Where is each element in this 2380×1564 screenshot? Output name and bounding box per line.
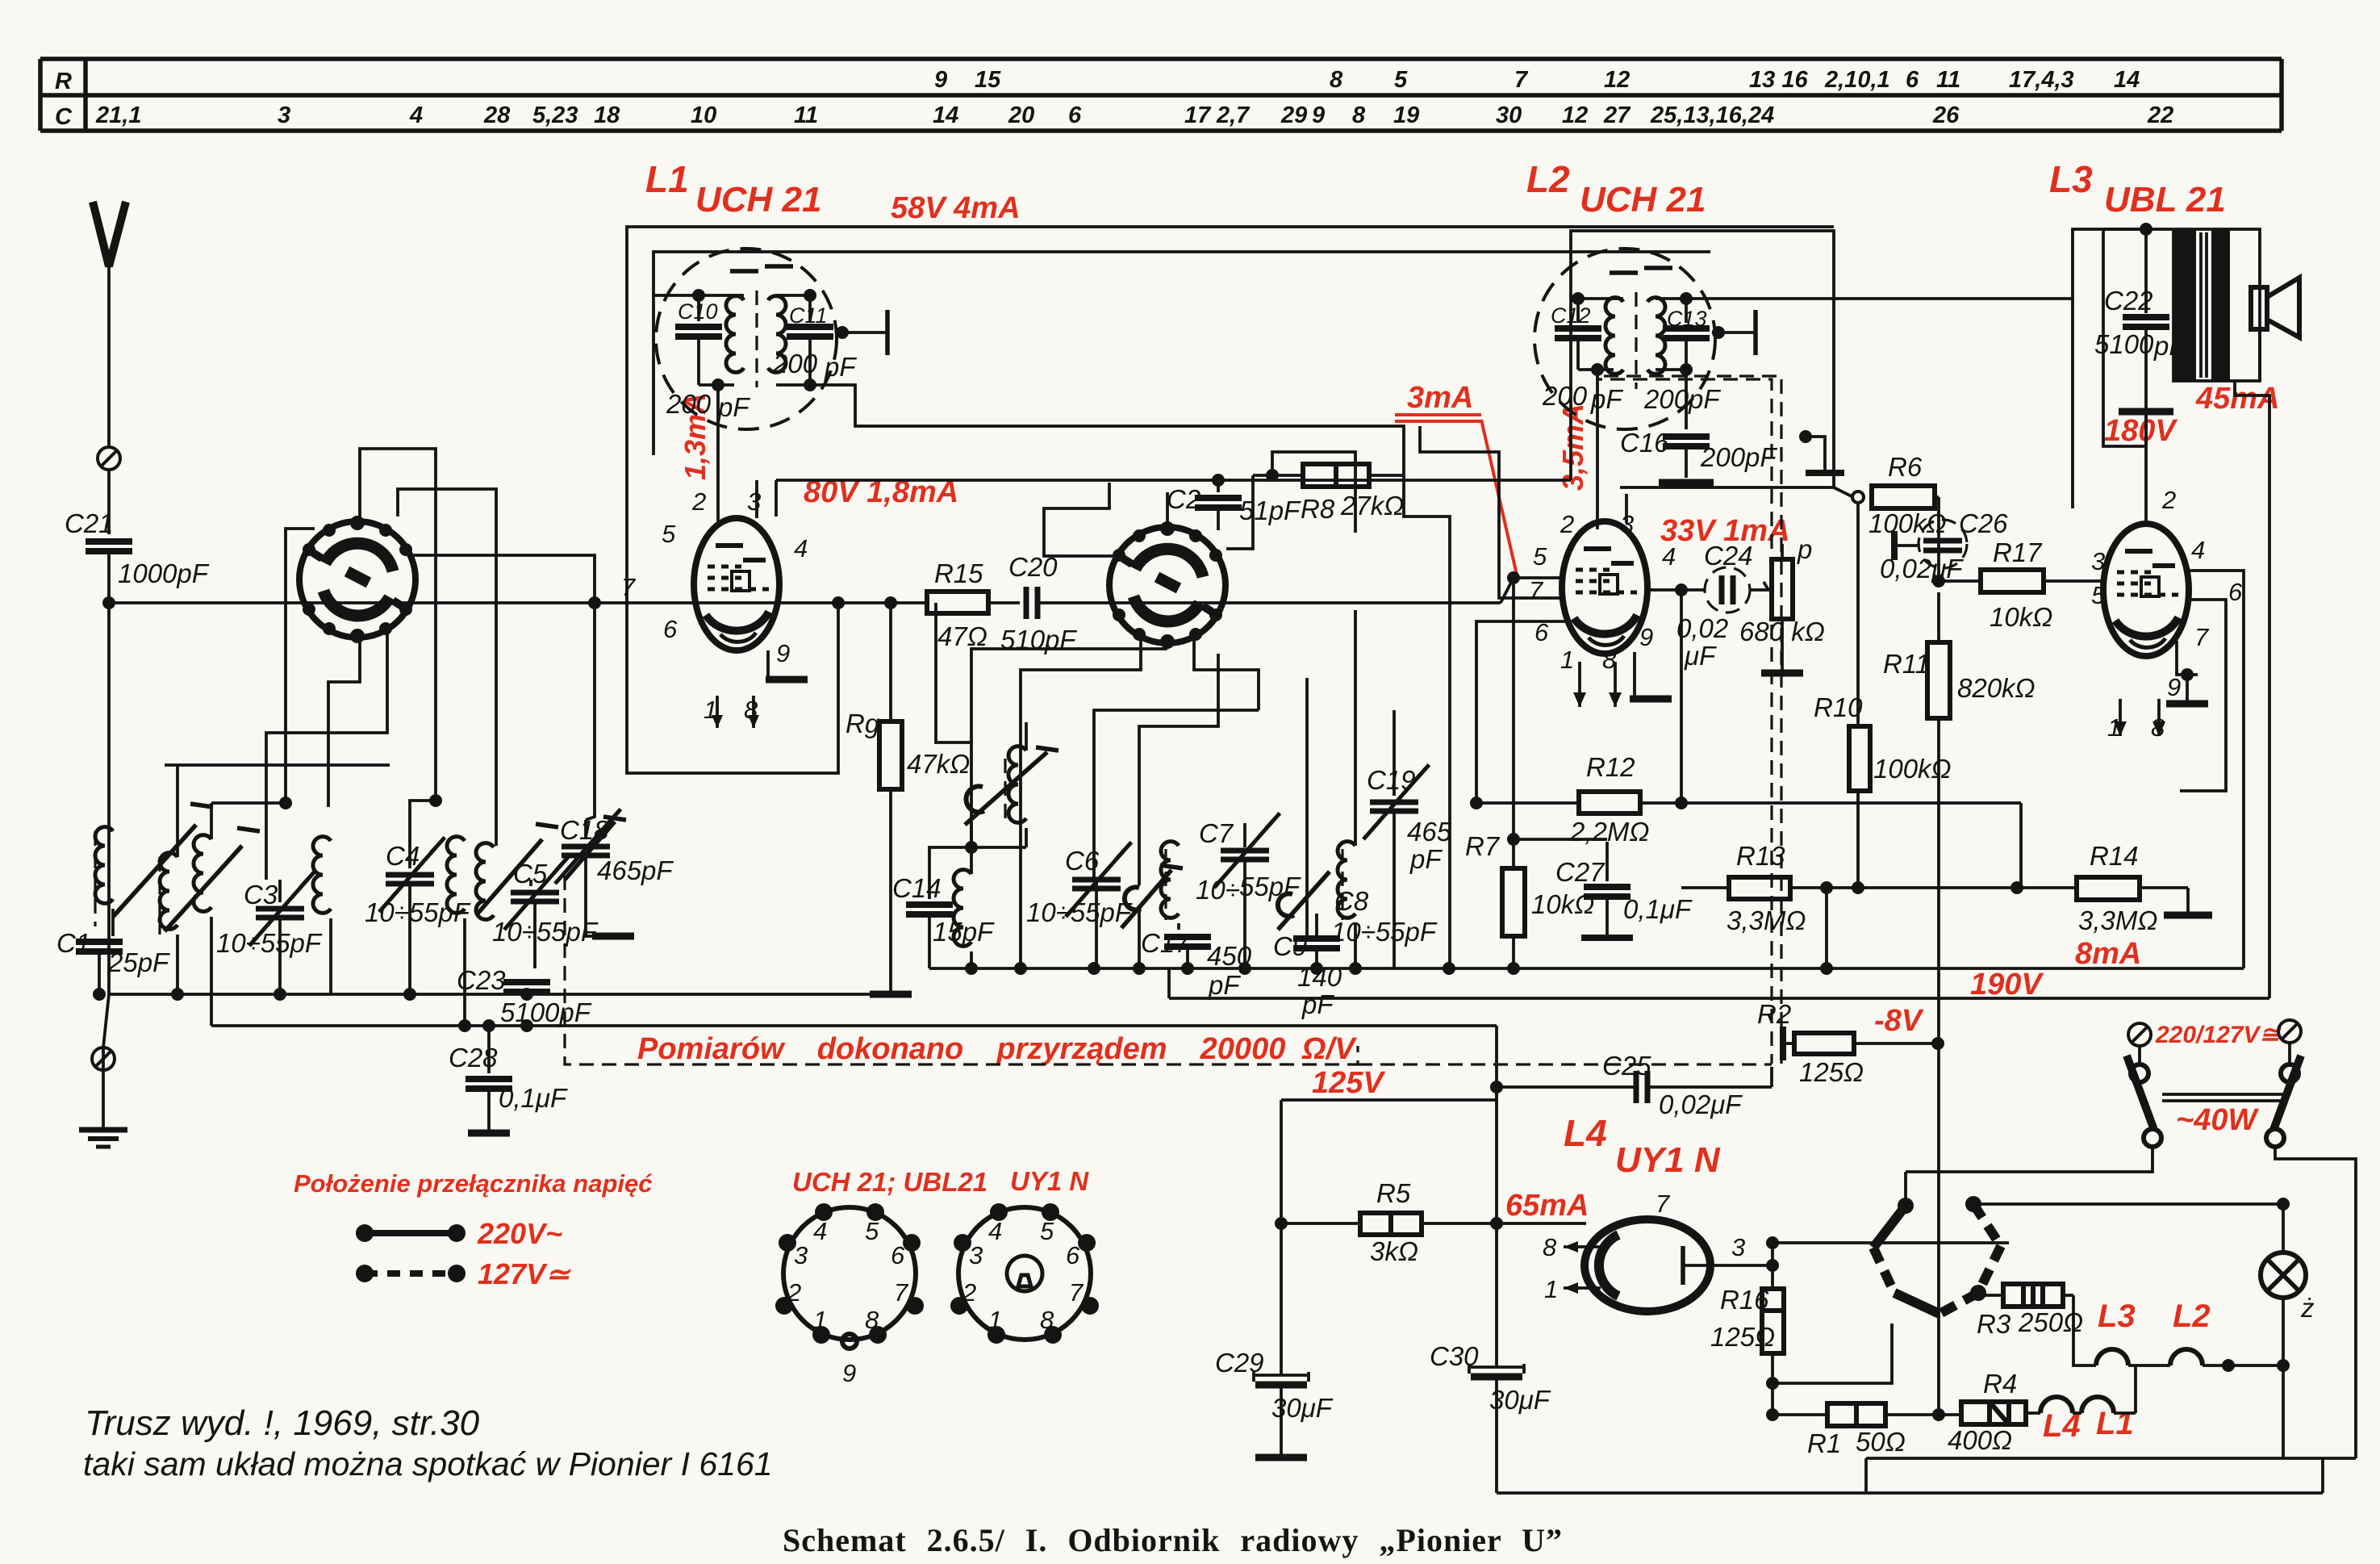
svg-text:C4: C4 bbox=[386, 841, 420, 871]
resistor R5 bbox=[1275, 1178, 1586, 1266]
capacitor C12 bbox=[1576, 299, 1580, 323]
coil IF mid bbox=[954, 823, 971, 968]
svg-text:10÷55pF: 10÷55pF bbox=[492, 917, 599, 947]
svg-text:18: 18 bbox=[594, 102, 620, 128]
capacitor C30 bbox=[1430, 1087, 1551, 1493]
capacitor C16 bbox=[1620, 370, 1777, 483]
grid stopper symbol right of dashes bbox=[1799, 430, 1844, 473]
bus nodes bbox=[171, 988, 184, 1001]
svg-text:C16: C16 bbox=[1620, 428, 1669, 458]
L3 pin wires bbox=[2114, 413, 2244, 968]
svg-text:μF: μF bbox=[1684, 641, 1717, 671]
svg-text:R15: R15 bbox=[934, 558, 983, 588]
table C row numbers bbox=[95, 102, 2173, 128]
tube L1 bbox=[694, 518, 779, 650]
svg-text:0,1μF: 0,1μF bbox=[1623, 894, 1693, 924]
svg-text:ż: ż bbox=[2300, 1293, 2315, 1323]
svg-text:UY1 N: UY1 N bbox=[1615, 1140, 1721, 1180]
svg-text:R: R bbox=[55, 69, 72, 94]
svg-text:220V~: 220V~ bbox=[477, 1217, 562, 1250]
T2 primary coil bbox=[1605, 298, 1623, 374]
svg-text:pF: pF bbox=[717, 392, 750, 422]
coil osc 1 bbox=[194, 835, 211, 1026]
svg-text:C30: C30 bbox=[1430, 1341, 1479, 1371]
wire S2 upper-left loop bbox=[1044, 483, 1121, 556]
capacitor C28 bbox=[449, 1019, 568, 1133]
svg-text:55pF: 55pF bbox=[1239, 872, 1301, 901]
L3 pin labels bbox=[2091, 486, 2243, 742]
svg-text:4: 4 bbox=[409, 102, 423, 128]
wire mixer mesh b bbox=[971, 649, 1167, 847]
svg-text:125Ω: 125Ω bbox=[1799, 1057, 1864, 1087]
svg-text:R2: R2 bbox=[1757, 999, 1791, 1029]
band switch S1 bbox=[299, 516, 415, 643]
svg-text:-8V: -8V bbox=[1874, 1004, 1924, 1038]
resistor R3 bbox=[1977, 1284, 2083, 1339]
svg-text:C25: C25 bbox=[1602, 1051, 1651, 1081]
wire S1 right to node bbox=[407, 555, 595, 603]
heater coils L3 L2 bbox=[2073, 1295, 2283, 1372]
L4 pin labels bbox=[1543, 1190, 1745, 1303]
svg-text:1000pF: 1000pF bbox=[118, 558, 210, 588]
svg-text:12: 12 bbox=[1562, 102, 1588, 128]
svg-text:3,3MΩ: 3,3MΩ bbox=[1727, 905, 1806, 935]
svg-text:4: 4 bbox=[988, 1217, 1002, 1245]
svg-text:R6: R6 bbox=[1888, 452, 1923, 482]
capacitor C27 bbox=[1514, 839, 1693, 938]
L2 pin wires bbox=[1476, 494, 1672, 803]
svg-text:3: 3 bbox=[969, 1241, 983, 1269]
svg-text:2,2MΩ: 2,2MΩ bbox=[1569, 817, 1649, 847]
svg-text:pF: pF bbox=[2153, 331, 2186, 361]
wire AVC bus right bbox=[1834, 487, 1853, 497]
wire C21 to node bbox=[107, 551, 111, 994]
bus lower 1 bbox=[109, 993, 891, 996]
svg-text:7: 7 bbox=[1069, 1278, 1084, 1307]
L1 inner top line bbox=[653, 252, 1710, 295]
wire S1 bottom left bbox=[328, 636, 360, 807]
svg-text:8: 8 bbox=[1543, 1233, 1557, 1261]
svg-text:200pF: 200pF bbox=[1643, 384, 1721, 414]
svg-text:C19: C19 bbox=[1367, 765, 1416, 795]
svg-text:27kΩ: 27kΩ bbox=[1340, 491, 1404, 521]
tube L3 bbox=[2103, 524, 2189, 656]
wire T2 grid cap out bbox=[1712, 310, 1756, 355]
svg-text:17,4,3: 17,4,3 bbox=[2009, 67, 2074, 93]
IF transformer T1 dashed circle bbox=[656, 249, 837, 429]
svg-text:65mA: 65mA bbox=[1505, 1189, 1589, 1223]
output transformer bbox=[2103, 223, 2260, 446]
wire T1 grid cap out bbox=[836, 310, 887, 355]
svg-text:7: 7 bbox=[1529, 576, 1544, 604]
L2 pin labels bbox=[1529, 510, 1676, 674]
svg-text:5,23: 5,23 bbox=[532, 102, 578, 128]
legend 220V solid link bbox=[356, 1224, 466, 1242]
svg-text:pF: pF bbox=[1301, 989, 1334, 1019]
svg-text:58V 4mA: 58V 4mA bbox=[891, 191, 1021, 225]
svg-text:21,1: 21,1 bbox=[95, 102, 141, 128]
inner box 33V bbox=[1620, 486, 1834, 489]
svg-text:10÷55pF: 10÷55pF bbox=[1026, 897, 1133, 927]
svg-text:45mA: 45mA bbox=[2195, 382, 2280, 416]
svg-text:UCH 21: UCH 21 bbox=[1580, 180, 1706, 220]
svg-text:L3: L3 bbox=[2098, 1298, 2136, 1334]
wire antenna to C21 bbox=[107, 471, 111, 534]
svg-text:C13: C13 bbox=[1667, 307, 1707, 331]
wires T2 bbox=[1578, 297, 1623, 300]
svg-text:C10: C10 bbox=[678, 299, 718, 324]
trimmer C4 bbox=[365, 835, 471, 994]
socket UCH21/UBL21 bbox=[775, 1203, 924, 1387]
trimmer C6 bbox=[1026, 843, 1133, 968]
wire T2 out right bbox=[1686, 299, 2073, 508]
svg-text:7: 7 bbox=[1656, 1190, 1671, 1218]
svg-text:3: 3 bbox=[747, 487, 761, 516]
svg-text:C20: C20 bbox=[1008, 552, 1058, 582]
svg-text:2: 2 bbox=[787, 1278, 801, 1307]
wire AVC from pin4 down bbox=[1675, 590, 1688, 809]
wire bank link c bbox=[211, 803, 286, 839]
bottom rails bbox=[1497, 1365, 2356, 1493]
svg-text:10kΩ: 10kΩ bbox=[1990, 602, 2052, 632]
svg-text:1: 1 bbox=[1544, 1275, 1558, 1303]
resistor R9 bbox=[846, 603, 970, 994]
svg-text:Położenie przełącznika napięć: Położenie przełącznika napięć bbox=[294, 1169, 653, 1198]
wires T1 bbox=[699, 294, 744, 297]
svg-text:3: 3 bbox=[794, 1241, 808, 1269]
capacitor C9 bbox=[1273, 872, 1342, 1019]
svg-text:10÷55pF: 10÷55pF bbox=[216, 928, 323, 958]
capacitor C13 bbox=[1685, 299, 1688, 323]
svg-text:0,02: 0,02 bbox=[1676, 613, 1728, 643]
coil osc 2 bbox=[313, 837, 331, 994]
svg-text:6: 6 bbox=[891, 1241, 905, 1269]
svg-text:R4: R4 bbox=[1983, 1369, 2017, 1399]
svg-text:C3: C3 bbox=[244, 880, 278, 910]
svg-text:250Ω: 250Ω bbox=[2018, 1307, 2083, 1337]
svg-text:190V: 190V bbox=[1970, 968, 2044, 1002]
wire plate L1 to R15 bbox=[779, 601, 900, 604]
svg-text:C17: C17 bbox=[1141, 928, 1191, 958]
svg-text:10÷55pF: 10÷55pF bbox=[1331, 917, 1438, 947]
svg-text:19: 19 bbox=[1393, 102, 1419, 128]
L1 outer box bbox=[627, 227, 1834, 603]
trimmer C7 bbox=[1199, 813, 1280, 968]
capacitor C24 (dashed circle) bbox=[1676, 541, 1753, 671]
svg-text:C1: C1 bbox=[56, 928, 90, 958]
svg-text:400Ω: 400Ω bbox=[1948, 1425, 2012, 1455]
bus middle bank bbox=[929, 967, 2244, 970]
svg-text:R14: R14 bbox=[2090, 841, 2139, 871]
svg-text:5: 5 bbox=[865, 1217, 879, 1245]
svg-text:9: 9 bbox=[1639, 623, 1653, 651]
svg-text:5: 5 bbox=[1394, 67, 1408, 93]
capacitor C14 bbox=[892, 841, 995, 968]
svg-text:C: C bbox=[55, 104, 73, 130]
svg-text:C11: C11 bbox=[789, 303, 828, 328]
speaker bbox=[2251, 278, 2299, 337]
svg-text:C14: C14 bbox=[892, 873, 942, 903]
svg-text:5: 5 bbox=[2091, 581, 2106, 609]
svg-text:L3: L3 bbox=[2049, 158, 2093, 200]
wire 125V feed bbox=[1281, 1087, 1497, 1100]
node S1 out bbox=[588, 596, 601, 609]
svg-text:25pF: 25pF bbox=[107, 947, 170, 977]
svg-text:5: 5 bbox=[1040, 1217, 1054, 1245]
svg-text:9: 9 bbox=[1312, 102, 1325, 128]
red lead line to tube L2 bbox=[1481, 420, 1517, 575]
svg-text:4: 4 bbox=[1662, 542, 1676, 571]
svg-text:R16: R16 bbox=[1720, 1285, 1769, 1315]
potentiometer P 680k bbox=[1739, 534, 1825, 673]
wire S2 top bbox=[1166, 492, 1169, 530]
wire antenna node to mixer bbox=[109, 601, 779, 604]
svg-text:6: 6 bbox=[663, 615, 678, 643]
svg-text:2,10,1: 2,10,1 bbox=[1824, 67, 1890, 93]
svg-text:7: 7 bbox=[621, 573, 637, 601]
svg-text:0,1μF: 0,1μF bbox=[499, 1083, 568, 1113]
svg-text:15: 15 bbox=[975, 67, 1001, 93]
svg-text:2: 2 bbox=[1560, 510, 1574, 538]
resistor R8 bbox=[1226, 464, 1404, 549]
svg-text:200: 200 bbox=[1542, 381, 1588, 411]
svg-text:R12: R12 bbox=[1586, 752, 1635, 782]
svg-text:9: 9 bbox=[2167, 673, 2181, 701]
power rotary switch bbox=[1873, 1172, 2001, 1314]
capacitor C11 bbox=[808, 295, 812, 321]
svg-text:510pF: 510pF bbox=[1000, 625, 1077, 654]
svg-text:28: 28 bbox=[483, 102, 511, 128]
svg-text:30: 30 bbox=[1496, 102, 1522, 128]
svg-text:3: 3 bbox=[2091, 547, 2105, 575]
wire mixer mesh g bbox=[1354, 610, 1357, 846]
wire L4 cathode right bbox=[1710, 1236, 2009, 1289]
svg-text:8: 8 bbox=[865, 1306, 879, 1334]
wire pin2 T2 to tube bbox=[1596, 370, 1599, 529]
band switch S2 bbox=[1109, 521, 1225, 649]
T2 secondary coil bbox=[1647, 298, 1665, 374]
wire bank link b bbox=[176, 765, 179, 857]
trimmer C3 bbox=[216, 872, 323, 994]
T1 primary coil bbox=[726, 296, 744, 373]
svg-text:C2: C2 bbox=[1167, 484, 1200, 514]
heater coils L4 L1 bbox=[2026, 1365, 2136, 1413]
resistor R4 bbox=[1939, 1369, 2026, 1455]
svg-text:1: 1 bbox=[1560, 646, 1574, 674]
svg-text:L2: L2 bbox=[1526, 158, 1570, 200]
trimmer C5 bbox=[476, 824, 599, 968]
svg-text:pF: pF bbox=[1590, 384, 1623, 414]
capacitor C25 bbox=[1490, 1051, 1772, 1119]
svg-text:6: 6 bbox=[1066, 1241, 1080, 1269]
svg-text:9: 9 bbox=[776, 639, 790, 667]
socket UY1N bbox=[950, 1203, 1099, 1344]
trimmer small mid bbox=[1121, 865, 1183, 968]
antenna terminal bbox=[98, 447, 120, 470]
svg-text:10÷: 10÷ bbox=[1196, 875, 1240, 905]
svg-text:200: 200 bbox=[772, 349, 818, 378]
trimmer C19 bbox=[1363, 710, 1452, 968]
T2 top bars bbox=[1610, 270, 1638, 275]
svg-text:8: 8 bbox=[1040, 1306, 1054, 1334]
svg-text:4: 4 bbox=[813, 1217, 827, 1245]
svg-text:8: 8 bbox=[1352, 102, 1366, 128]
capacitor C29 bbox=[1215, 1223, 1334, 1457]
wire node to C18 bbox=[586, 603, 595, 820]
resistor R13 bbox=[1681, 841, 1834, 935]
svg-text:100kΩ: 100kΩ bbox=[1873, 754, 1952, 784]
svg-text:27: 27 bbox=[1603, 102, 1631, 128]
IF transformer T2 dashed circle bbox=[1534, 249, 1715, 429]
svg-text:taki sam układ można spotkać w: taki sam układ można spotkać w Pionier I… bbox=[83, 1445, 773, 1482]
T1 top bars bbox=[730, 269, 758, 274]
resistor R14 bbox=[1834, 841, 2212, 935]
coil ant 1 bbox=[95, 804, 213, 926]
svg-text:Schemat 2.6.5/ I. Odbiornik ra: Schemat 2.6.5/ I. Odbiornik radiowy „Pio… bbox=[783, 1522, 1563, 1558]
svg-text:R11: R11 bbox=[1883, 649, 1930, 679]
voltage selector bbox=[1906, 1020, 2356, 1458]
svg-text:C23: C23 bbox=[457, 965, 506, 995]
svg-text:~40W: ~40W bbox=[2176, 1103, 2259, 1137]
svg-text:30μF: 30μF bbox=[1489, 1385, 1551, 1415]
svg-text:C26: C26 bbox=[1959, 508, 2008, 538]
svg-text:220/127V≅: 220/127V≅ bbox=[2155, 1022, 2282, 1048]
svg-text:3kΩ: 3kΩ bbox=[1370, 1236, 1418, 1266]
L1 pin labels bbox=[621, 487, 808, 724]
svg-text:20: 20 bbox=[1008, 102, 1034, 128]
table R row numbers bbox=[934, 67, 2140, 93]
svg-text:R7: R7 bbox=[1465, 831, 1501, 861]
resistor R6 bbox=[1852, 452, 1947, 538]
dashed 127V feed pair bbox=[1597, 370, 1781, 1064]
dashed box bbox=[565, 876, 1772, 1064]
capacitor C23 bbox=[457, 965, 592, 1027]
capacitor C21 bbox=[65, 508, 210, 588]
svg-text:0,02μF: 0,02μF bbox=[1659, 1089, 1743, 1119]
svg-text:14: 14 bbox=[933, 102, 958, 128]
L4 pin arrows bbox=[1564, 1219, 1647, 1294]
svg-text:2,7: 2,7 bbox=[1216, 102, 1251, 128]
svg-text:C24: C24 bbox=[1704, 541, 1753, 571]
svg-text:1: 1 bbox=[988, 1306, 1002, 1334]
svg-text:C28: C28 bbox=[449, 1043, 498, 1073]
svg-text:R17: R17 bbox=[1993, 537, 2043, 567]
svg-text:100kΩ: 100kΩ bbox=[1869, 508, 1947, 538]
node antenna coupling bbox=[102, 596, 115, 609]
svg-text:5100pF: 5100pF bbox=[500, 997, 592, 1027]
capacitor C22 bbox=[2094, 229, 2186, 446]
svg-text:UY1 N: UY1 N bbox=[1010, 1166, 1089, 1196]
svg-text:R3: R3 bbox=[1977, 1309, 2011, 1339]
capacitor C20 bbox=[1000, 552, 1514, 654]
svg-text:Pomiarów dokonano przyrządem: Pomiarów dokonano przyrządem 20000 Ω/V bbox=[637, 1032, 1357, 1066]
L1 pin wires bbox=[712, 480, 808, 728]
svg-text:17: 17 bbox=[1184, 102, 1212, 128]
svg-text:15pF: 15pF bbox=[933, 917, 995, 947]
svg-text:C8: C8 bbox=[1334, 886, 1369, 916]
wire 190V rail bbox=[1169, 968, 2269, 998]
main earth ground bbox=[79, 1130, 127, 1147]
resistor R12 bbox=[1470, 752, 2021, 888]
svg-text:12: 12 bbox=[1604, 67, 1630, 93]
legend 127V dashed link bbox=[356, 1265, 466, 1282]
svg-text:L2: L2 bbox=[2173, 1298, 2211, 1334]
wire mixer mesh a bbox=[936, 603, 971, 742]
svg-text:pF: pF bbox=[1208, 970, 1241, 1000]
wire plate supply top bbox=[2073, 229, 2146, 299]
svg-text:UCH 21; UBL21: UCH 21; UBL21 bbox=[792, 1167, 987, 1197]
capacitor C10 bbox=[697, 295, 700, 321]
svg-text:6: 6 bbox=[2228, 578, 2243, 606]
svg-text:200: 200 bbox=[666, 389, 712, 419]
trimmer C18 bbox=[555, 809, 674, 936]
tube L4 rectifier UY1N bbox=[1585, 1219, 1710, 1311]
svg-text:127V≃: 127V≃ bbox=[478, 1257, 571, 1290]
coil osc 3 bbox=[447, 837, 465, 1026]
wire mixer mesh d bbox=[1094, 710, 1259, 878]
svg-text:2: 2 bbox=[962, 1278, 976, 1307]
wire pin4 to detector bbox=[1647, 583, 1704, 596]
wire transformer secondary down bbox=[2235, 381, 2269, 998]
svg-text:R8: R8 bbox=[1301, 494, 1335, 524]
coil C8 branch bbox=[1331, 842, 1438, 968]
wire to ground bbox=[102, 1048, 105, 1128]
svg-text:R5: R5 bbox=[1376, 1178, 1411, 1208]
wire S2 lower stubs bbox=[1166, 642, 1169, 649]
coil C17 branch bbox=[1141, 842, 1301, 1000]
wire S1 top loop outer bbox=[398, 489, 496, 846]
resistor R11 bbox=[1883, 592, 2036, 1421]
table frame bbox=[40, 59, 2282, 131]
svg-text:5: 5 bbox=[662, 520, 676, 548]
capacitor C26 (dashed circle) bbox=[1880, 508, 2008, 583]
svg-text:200pF: 200pF bbox=[1700, 442, 1777, 472]
svg-text:3mA: 3mA bbox=[1407, 381, 1473, 415]
svg-text:3,3MΩ: 3,3MΩ bbox=[2078, 905, 2157, 935]
svg-text:125Ω: 125Ω bbox=[1710, 1322, 1775, 1352]
svg-text:3,5mA: 3,5mA bbox=[1556, 404, 1589, 491]
svg-text:47Ω: 47Ω bbox=[937, 621, 987, 651]
wire bank link a bbox=[165, 763, 390, 767]
svg-text:C6: C6 bbox=[1065, 846, 1100, 876]
svg-text:9: 9 bbox=[842, 1359, 856, 1387]
svg-text:UCH 21: UCH 21 bbox=[695, 180, 822, 220]
coil ant 2 bbox=[160, 828, 260, 994]
svg-text:L4: L4 bbox=[1564, 1112, 1607, 1154]
svg-text:6: 6 bbox=[1906, 67, 1919, 93]
svg-text:1: 1 bbox=[813, 1306, 827, 1334]
resistor R16 bbox=[1710, 1285, 1892, 1415]
svg-text:9: 9 bbox=[934, 67, 947, 93]
svg-text:Rg: Rg bbox=[846, 709, 880, 738]
antenna bbox=[93, 202, 126, 445]
svg-text:4: 4 bbox=[2191, 536, 2205, 564]
svg-text:22: 22 bbox=[2147, 102, 2173, 128]
svg-text:26: 26 bbox=[1932, 102, 1960, 128]
wire 80V line bbox=[776, 479, 1571, 482]
L1 box bottom bbox=[627, 603, 838, 773]
svg-text:C5: C5 bbox=[513, 859, 548, 889]
svg-text:R10: R10 bbox=[1814, 692, 1863, 722]
svg-text:820kΩ: 820kΩ bbox=[1957, 673, 2036, 703]
svg-text:2: 2 bbox=[2161, 486, 2176, 514]
capacitor C1 bbox=[56, 909, 170, 994]
svg-text:6: 6 bbox=[1068, 102, 1082, 128]
svg-text:C21: C21 bbox=[65, 508, 114, 538]
svg-text:29: 29 bbox=[1280, 102, 1307, 128]
earth terminal bbox=[92, 1048, 115, 1070]
wire mixer output mesh bbox=[1272, 452, 1355, 500]
